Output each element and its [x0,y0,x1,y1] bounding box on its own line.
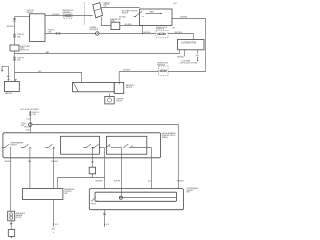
svg-text:WHT/BLU: WHT/BLU [143,32,151,34]
svg-text:SWITCH: SWITCH [11,144,18,146]
svg-text:BLK/WHT: BLK/WHT [96,181,103,183]
svg-text:FUSE 15: FUSE 15 [32,112,39,114]
svg-text:SWITCH: SWITCH [27,12,34,14]
svg-text:FUSE BOX: FUSE BOX [62,12,71,14]
svg-text:HOT IN ON OR START: HOT IN ON OR START [21,108,40,111]
svg-text:UNIT: UNIT [186,192,190,194]
svg-text:SWITCH: SWITCH [126,87,133,89]
svg-text:CONTROL: CONTROL [64,191,72,193]
svg-text:BLK: BLK [55,224,58,226]
svg-text:UNDER-HOOD: UNDER-HOOD [157,62,169,64]
svg-text:HOT: HOT [174,3,177,5]
svg-text:ON: ON [30,147,32,149]
svg-text:C520: C520 [27,119,31,121]
svg-text:FUSE 39: FUSE 39 [17,57,24,59]
svg-text:FUSE 15: FUSE 15 [48,30,55,32]
svg-text:UNDER-HOOD: UNDER-HOOD [156,27,168,29]
svg-text:WHT/BLU: WHT/BLU [177,57,185,59]
svg-text:WINDSHIELD: WINDSHIELD [16,213,26,215]
svg-text:WHT/BLK: WHT/BLK [7,26,15,28]
svg-text:WHT/BLU: WHT/BLU [175,32,183,34]
svg-text:MOTOR: MOTOR [116,101,123,103]
svg-text:BLK/WHT: BLK/WHT [51,161,58,163]
svg-text:FUSE BOX: FUSE BOX [156,29,165,31]
svg-text:MOTOR: MOTOR [16,217,22,219]
svg-text:SWITCH: SWITCH [122,13,129,15]
svg-text:UNDER-HOOD: UNDER-HOOD [62,10,74,12]
svg-text:C543: C543 [26,129,30,131]
svg-text:IGNITION: IGNITION [27,10,35,12]
svg-text:BLK/WHT: BLK/WHT [123,69,130,71]
svg-text:TO POWER: TO POWER [182,60,191,62]
svg-text:UNIT: UNIT [64,193,68,195]
svg-text:ELECTRONIC: ELECTRONIC [20,46,31,48]
svg-text:BLK: BLK [106,224,109,226]
svg-text:G401: G401 [52,229,56,231]
svg-text:FUSE 30: FUSE 30 [17,34,24,36]
svg-text:CONTROLLED SYSTEM: CONTROLLED SYSTEM [180,62,199,64]
svg-text:BLK/YEL: BLK/YEL [114,181,121,183]
svg-text:(PRINTED CIRCUIT: (PRINTED CIRCUIT [162,135,176,137]
svg-text:CONTROL: CONTROL [186,190,193,192]
svg-text:BLK/YEL: BLK/YEL [24,127,31,129]
svg-text:BLK/RED: BLK/RED [180,17,188,19]
svg-text:BLK/WHT: BLK/WHT [52,14,59,16]
svg-text:ALTERNATOR: ALTERNATOR [181,41,196,44]
svg-text:DETECTOR: DETECTOR [20,50,30,52]
svg-text:OFF ON: OFF ON [91,203,96,205]
svg-text:BLU/RED: BLU/RED [125,24,133,26]
svg-text:GRN/BLK: GRN/BLK [177,181,185,183]
svg-text:BLU/BLK: BLU/BLK [119,17,126,19]
svg-text:TO ELD: TO ELD [21,123,28,125]
svg-text:FUSE BOX: FUSE BOX [157,64,166,66]
svg-text:GRN/BLK: GRN/BLK [4,161,12,163]
